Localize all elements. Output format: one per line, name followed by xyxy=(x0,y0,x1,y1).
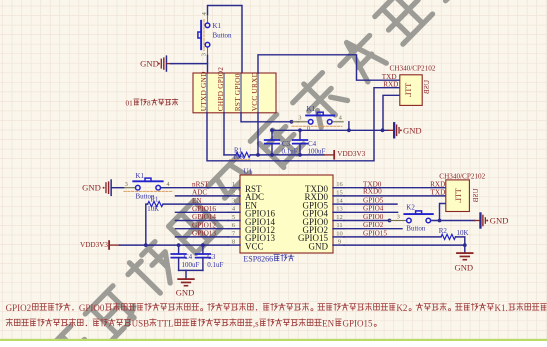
svg-text:16: 16 xyxy=(336,181,343,188)
capacitor C3 (top, 0.1uF) xyxy=(265,130,298,155)
svg-text:GPIO2: GPIO2 xyxy=(6,303,32,313)
pushbutton K1 (second, horizontal, reset) xyxy=(292,105,344,132)
svg-text:GPIO15: GPIO15 xyxy=(342,318,373,328)
svg-text:Button: Button xyxy=(406,224,426,232)
svg-text:CH340/CP2102: CH340/CP2102 xyxy=(439,172,485,180)
wire module UTXD to TTL RXD xyxy=(207,88,400,161)
svg-text:GND: GND xyxy=(490,216,509,226)
svg-text:1: 1 xyxy=(232,181,235,188)
svg-text:12: 12 xyxy=(336,214,343,221)
svg-text:10: 10 xyxy=(336,230,343,237)
svg-text:GND: GND xyxy=(309,241,329,251)
svg-text:GPIO16: GPIO16 xyxy=(192,205,216,213)
svg-text:VCC: VCC xyxy=(245,241,264,251)
junction GPIO0/K2 xyxy=(388,219,392,223)
svg-text:3: 3 xyxy=(201,53,208,56)
ground GND power port (left of K1) xyxy=(82,179,112,196)
junction K1-GND rail xyxy=(347,128,351,132)
wire caps bottom rail xyxy=(179,269,203,271)
note text line 2 xyxy=(6,318,376,328)
wire VCC rail (top section) xyxy=(250,154,324,156)
wire rail to earth ground xyxy=(185,270,187,278)
svg-text:K2: K2 xyxy=(406,204,415,212)
module U2 CH340/CP2102 TTL-USB (top) xyxy=(390,64,436,105)
pushbutton K1 (reset, bottom) xyxy=(124,172,172,200)
junction C3 bottom xyxy=(270,153,274,157)
svg-text:GND: GND xyxy=(176,287,195,297)
pushbutton K2 (flash, bottom-right) xyxy=(390,204,442,233)
label ESP8266核心板 xyxy=(243,254,294,263)
svg-text:3: 3 xyxy=(232,198,235,205)
svg-text:13: 13 xyxy=(336,206,343,213)
earth ground (bottom caps) xyxy=(176,278,195,297)
junction GND/R2 column xyxy=(463,243,467,247)
svg-text:U1: U1 xyxy=(244,168,253,176)
svg-text:3: 3 xyxy=(397,214,400,221)
wire GPIO13 stub xyxy=(176,236,229,238)
svg-text:GND: GND xyxy=(82,183,101,193)
svg-text:RXD: RXD xyxy=(383,81,398,89)
wire GPIO5 stub xyxy=(344,203,397,205)
wire GPIO12 stub xyxy=(176,228,229,230)
wire ESP TXD0 to TTL RXD xyxy=(344,187,446,189)
svg-text:nRST: nRST xyxy=(192,180,209,188)
junction R1/VDD rail xyxy=(144,243,148,247)
svg-text:GPIO0: GPIO0 xyxy=(79,303,105,313)
green divider line (bottom) xyxy=(0,339,547,341)
wire ESP RXD0 to TTL TXD xyxy=(344,195,446,197)
svg-text:100uF: 100uF xyxy=(182,261,200,269)
svg-text:VDD3V3: VDD3V3 xyxy=(80,241,108,249)
svg-text:UTXD GND: UTXD GND xyxy=(199,71,208,111)
svg-text:2: 2 xyxy=(232,189,235,196)
svg-text:RXD: RXD xyxy=(430,180,445,188)
svg-text:GPIO15: GPIO15 xyxy=(363,229,387,237)
wire ESP GND pin9 to earth column xyxy=(344,244,465,246)
svg-text:GPIO13: GPIO13 xyxy=(192,230,216,238)
wire GPIO2 stub xyxy=(344,228,402,230)
wire GPIO15 to R2 xyxy=(344,236,441,238)
wire K2 to GND bar xyxy=(432,220,475,222)
svg-text:GND: GND xyxy=(403,125,422,135)
wire GPIO4 stub xyxy=(344,211,398,213)
svg-text:,s: ,s xyxy=(253,318,259,328)
wire TTL GND pin to rail xyxy=(383,95,400,130)
svg-text:VCC URXD: VCC URXD xyxy=(250,72,259,112)
junction C3 top xyxy=(201,243,205,247)
wire R2 down to earth xyxy=(456,237,465,252)
svg-text:5: 5 xyxy=(232,214,235,221)
svg-text:TXD: TXD xyxy=(431,188,446,196)
resistor R1 (top, 10K) xyxy=(224,148,250,161)
svg-text:USB: USB xyxy=(472,188,480,202)
svg-text:15: 15 xyxy=(336,189,343,196)
wire R1 down to VDD rail xyxy=(146,204,148,245)
svg-text:TXD: TXD xyxy=(382,73,397,81)
wire module VCC pin down to rail xyxy=(257,113,259,155)
svg-text:ADC: ADC xyxy=(192,189,207,197)
wire R1 to ESP EN xyxy=(163,203,228,205)
wire K1 pin3 down to module GND pin xyxy=(207,56,209,74)
note text line 1 xyxy=(6,303,547,313)
ground GND power port (top-right) xyxy=(389,122,422,138)
svg-text:K1.: K1. xyxy=(495,303,508,313)
svg-text:GPIO4: GPIO4 xyxy=(363,204,384,212)
svg-text:0.1uF: 0.1uF xyxy=(207,261,223,269)
wire TTL GND down to K2 row xyxy=(440,204,446,221)
svg-text:VDD3V3: VDD3V3 xyxy=(337,150,365,158)
ESP8266 core board U1 body xyxy=(228,168,344,253)
junction C4 top xyxy=(177,243,181,247)
junction VCC col xyxy=(256,153,260,157)
connector J1 01-module 8-pin header body xyxy=(193,67,276,113)
svg-text:USB: USB xyxy=(423,80,431,94)
pushbutton K1 (top, vertical) xyxy=(198,12,232,57)
svg-text:CH340/CP2102: CH340/CP2102 xyxy=(390,64,436,72)
svg-text:CHPD GPIO2: CHPD GPIO2 xyxy=(216,67,225,112)
svg-text:GPIO5: GPIO5 xyxy=(363,197,384,205)
svg-text:TTL: TTL xyxy=(454,188,463,203)
junction C4 top xyxy=(298,128,302,132)
svg-text:14: 14 xyxy=(336,198,343,205)
wire GND rail (top section) xyxy=(272,129,389,131)
capacitor C3 (bottom, 0.1uF) xyxy=(196,245,224,270)
svg-text:EN: EN xyxy=(192,197,202,205)
resistor R1 (bottom, 10K pull-up on EN) xyxy=(147,196,163,213)
svg-text:GND: GND xyxy=(454,262,473,272)
svg-text:11: 11 xyxy=(336,222,342,229)
wire K1 pin4 to ESP RST xyxy=(162,187,229,189)
wire GPIO0 to K2 xyxy=(344,220,390,222)
power port VDD3V3 (bottom) xyxy=(80,240,119,250)
wire GPIO14 stub xyxy=(176,220,229,222)
resistor R2 (10K on GPIO15) xyxy=(439,227,469,239)
svg-text:EN: EN xyxy=(322,318,334,328)
earth ground (bottom-right) xyxy=(454,252,473,272)
svg-text:USB: USB xyxy=(132,318,150,328)
ground GND (top-left power port) xyxy=(140,55,171,71)
svg-text:3: 3 xyxy=(125,181,128,188)
wire module CHPD pin down to R1 xyxy=(223,113,225,155)
svg-text:TTL: TTL xyxy=(157,318,174,328)
svg-text:3: 3 xyxy=(298,114,301,121)
wire VDD3V3 rail to ESP VCC xyxy=(120,244,229,246)
svg-text:01: 01 xyxy=(126,100,134,108)
svg-text:R2: R2 xyxy=(439,227,448,235)
wire GND to K1 column xyxy=(171,63,208,65)
svg-text:GPIO2: GPIO2 xyxy=(363,221,384,229)
wire GND to K1 pin3 xyxy=(112,187,124,189)
svg-text:GPIO0: GPIO0 xyxy=(363,213,384,221)
label 01模块8脚排线图 xyxy=(126,99,178,108)
svg-text:K1: K1 xyxy=(136,172,145,180)
svg-text:RST GPIO0: RST GPIO0 xyxy=(233,73,242,111)
svg-text:10K: 10K xyxy=(457,229,469,237)
svg-text:9: 9 xyxy=(338,239,341,246)
svg-text:GPIO12: GPIO12 xyxy=(192,221,216,229)
wire GPIO16 stub xyxy=(176,211,229,213)
svg-text:GND: GND xyxy=(140,59,159,69)
svg-text:TTL: TTL xyxy=(404,83,413,98)
svg-text:K1: K1 xyxy=(213,22,222,30)
module U3 CH340/CP2102 TTL-USB (bottom) xyxy=(439,172,485,211)
svg-text:R1: R1 xyxy=(151,196,159,203)
wire module URXD to TTL TXD xyxy=(258,55,400,80)
svg-text:C3: C3 xyxy=(207,253,216,261)
capacitor C4 (bottom, 100uF) xyxy=(171,245,199,270)
power port VDD3V3 (top section) xyxy=(324,150,366,160)
svg-text:8: 8 xyxy=(147,100,151,108)
wire K1 pin4 to GPIO0 pin (over the top) xyxy=(208,6,243,74)
junction C4 bottom xyxy=(298,153,302,157)
junction on RST wire xyxy=(290,120,294,124)
wire ADC stub xyxy=(176,195,229,197)
svg-text:C4: C4 xyxy=(184,253,193,261)
svg-text:10K: 10K xyxy=(147,206,159,213)
svg-text:RXD0: RXD0 xyxy=(363,188,382,196)
wire K1 pin4 down to GND rail xyxy=(348,122,350,131)
svg-text:ESP8266: ESP8266 xyxy=(243,254,273,263)
junction C3 top xyxy=(270,128,274,132)
capacitor C4 (top, 100uF) xyxy=(293,130,326,155)
wire module RST pin to K1 button (lower route) xyxy=(241,113,292,122)
junction GND rail / TTL gnd xyxy=(381,128,385,132)
junction TTL-GND/K2 row xyxy=(438,219,442,223)
svg-text:K1: K1 xyxy=(307,105,316,113)
ground GND power port (right of K2) xyxy=(475,212,509,228)
svg-text:8: 8 xyxy=(232,239,235,246)
svg-text:Button: Button xyxy=(213,32,233,40)
watermark 深圳市普林赛斯科技有限公司 (diagonal gray) xyxy=(39,0,474,347)
svg-text:K2: K2 xyxy=(396,303,407,313)
svg-text:GPIO14: GPIO14 xyxy=(192,213,216,221)
